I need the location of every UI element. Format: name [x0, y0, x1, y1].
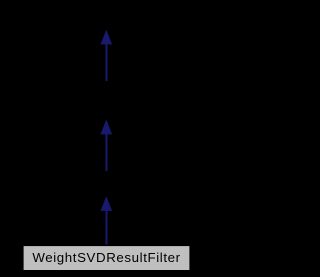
arrow 3 (bottom inheritance edge): [101, 196, 113, 244]
arrowhead 2: [101, 119, 113, 134]
node WeightSVDResultFilter (current class box): [23, 246, 190, 271]
box border and grey fill: [23, 246, 190, 271]
node: middle base class (transparent placeholder, not drawn): [0, 0, 1, 1]
node: top base class (transparent placeholder, not drawn): [0, 0, 1, 1]
shaft wire 1: [105, 44, 107, 81]
arrowhead 1: [101, 30, 113, 45]
shaft wire 2: [105, 134, 107, 171]
arrow 2 (middle inheritance edge): [101, 119, 113, 170]
arrowhead 3: [101, 196, 113, 211]
label WeightSVDResultFilter: [0, 251, 213, 264]
inheritance diagram: WeightSVDResultFilter: [0, 0, 213, 277]
node: lower base class (transparent placeholder, not drawn): [0, 0, 1, 1]
shaft wire 3: [105, 211, 107, 245]
arrow 1 (top inheritance edge): [101, 30, 113, 81]
